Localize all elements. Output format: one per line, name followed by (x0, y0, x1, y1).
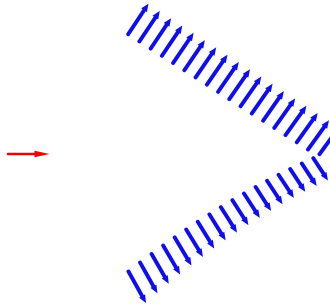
upper band blue arrow 7, pointing up-right (196, 47, 217, 77)
upper band blue arrow 9, pointing up-right (218, 62, 239, 92)
lower band blue arrow 10, pointing down-right (232, 200, 248, 225)
lower band blue arrow 4, pointing down-right (163, 246, 180, 275)
lower band blue arrow 3, pointing down-right (152, 254, 169, 284)
red arrow (source / incident direction), pointing right (8, 151, 50, 158)
upper band blue arrow 11, pointing up-right (241, 77, 262, 107)
lower band blue arrow 2, pointing down-right (140, 263, 157, 294)
upper band blue arrow 13, pointing up-right (263, 91, 284, 121)
lower band blue arrow 14, pointing down-right (279, 175, 294, 198)
upper band blue arrow 18 (clipped at right edge) (320, 125, 330, 154)
lower band blue arrow 9, pointing down-right (221, 207, 237, 232)
upper band blue arrow 17, pointing up-right (308, 120, 329, 149)
upper band blue arrow 15, pointing up-right (286, 106, 307, 135)
lower band blue arrow 7, pointing down-right (198, 222, 214, 249)
lower band blue arrow 6, pointing down-right (186, 230, 203, 257)
lower band blue arrow 15, pointing down-right (290, 169, 305, 192)
upper band blue arrow 14, pointing up-right (274, 98, 295, 128)
upper band blue arrow 2, pointing up-right (139, 11, 159, 42)
upper band blue arrow 5, pointing up-right (173, 33, 194, 63)
upper band blue arrow 1, pointing up-right (128, 4, 148, 35)
upper band blue arrow 10, pointing up-right (229, 69, 250, 99)
upper band blue arrow 12, pointing up-right (252, 84, 273, 114)
lower band blue arrow 13, pointing down-right (267, 181, 282, 205)
lower band blue arrow 16, pointing down-right (302, 164, 317, 187)
lower band blue arrow 5, pointing down-right (175, 237, 192, 265)
lower band blue arrow 12, pointing down-right (256, 187, 272, 211)
upper band blue arrow 6, pointing up-right (184, 40, 205, 70)
upper band blue arrow 3, pointing up-right (151, 18, 171, 48)
upper band blue arrow 16, pointing up-right (297, 113, 318, 142)
lower band blue arrow 1, pointing down-right (129, 272, 147, 304)
lower band blue arrow 11, pointing down-right (244, 194, 260, 218)
lower band blue arrow 17, pointing down-right (313, 158, 328, 180)
upper band blue arrow 4, pointing up-right (162, 26, 182, 56)
upper band blue arrow 8, pointing up-right (207, 55, 228, 85)
lower band blue arrow 8, pointing down-right (209, 214, 225, 240)
